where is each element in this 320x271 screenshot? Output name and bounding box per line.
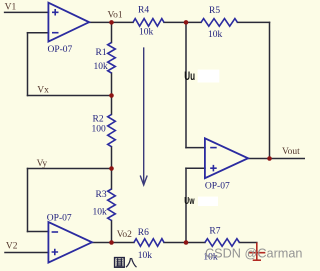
svg-text:10k: 10k	[93, 208, 108, 218]
svg-text:Vy: Vy	[37, 159, 48, 169]
svg-text:Vx: Vx	[37, 85, 49, 95]
svg-text:V2: V2	[6, 242, 18, 252]
svg-text:Vo1: Vo1	[108, 11, 123, 21]
svg-text:CSDN @Carman: CSDN @Carman	[205, 247, 302, 261]
svg-text:R4: R4	[138, 6, 149, 16]
svg-text:OP-07: OP-07	[47, 214, 72, 224]
svg-text:100: 100	[92, 125, 107, 135]
svg-text:10k: 10k	[138, 251, 153, 261]
svg-text:R2: R2	[93, 115, 104, 125]
svg-text:Vout: Vout	[282, 147, 300, 157]
svg-text:10k: 10k	[208, 30, 223, 40]
svg-text:OP-07: OP-07	[48, 45, 73, 55]
svg-text:V1: V1	[5, 3, 17, 13]
svg-text:Uu: Uu	[184, 71, 195, 83]
svg-text:R3: R3	[96, 190, 107, 200]
svg-text:R1: R1	[96, 48, 107, 58]
svg-text:R7: R7	[209, 227, 220, 237]
svg-text:10k: 10k	[139, 28, 154, 38]
svg-text:Uw: Uw	[184, 196, 194, 207]
svg-text:Vo2: Vo2	[117, 230, 132, 240]
svg-text:R6: R6	[138, 228, 149, 238]
svg-text:OP-07: OP-07	[205, 182, 230, 192]
svg-text:10k: 10k	[94, 62, 109, 72]
svg-text:R5: R5	[209, 6, 220, 16]
